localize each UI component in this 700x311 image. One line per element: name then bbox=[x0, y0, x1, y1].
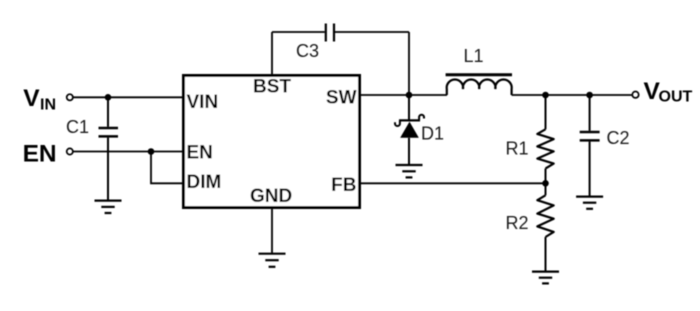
resistor R1 bbox=[537, 95, 553, 183]
wire VIN rail bbox=[73, 96, 182, 98]
ground GND pin bbox=[259, 254, 286, 267]
wire L1 to VOUT bbox=[512, 94, 633, 96]
wire GND stub bbox=[271, 208, 273, 253]
svg-text:C1: C1 bbox=[66, 117, 89, 137]
label VIN bbox=[23, 85, 56, 114]
node SW junction bbox=[406, 92, 413, 99]
wire DIM link bbox=[151, 152, 182, 184]
svg-text:SW: SW bbox=[326, 88, 357, 109]
svg-text:R1: R1 bbox=[506, 139, 529, 159]
node VOUT-C2 junction bbox=[586, 92, 593, 99]
node VOUT-R1 junction bbox=[542, 92, 549, 99]
svg-text:C2: C2 bbox=[607, 128, 630, 148]
svg-text:C3: C3 bbox=[296, 41, 319, 61]
capacitor C1 bbox=[99, 97, 119, 199]
node FB junction bbox=[542, 180, 549, 187]
svg-text:VIN: VIN bbox=[187, 92, 219, 113]
ground C2 bbox=[576, 197, 603, 209]
svg-text:R2: R2 bbox=[506, 213, 529, 233]
svg-text:DIM: DIM bbox=[187, 172, 222, 193]
wire BST-SW vertical bbox=[408, 32, 410, 95]
ground D1 bbox=[396, 165, 423, 177]
wire SW bbox=[361, 94, 409, 96]
resistor R2 bbox=[537, 183, 553, 271]
node EN-DIM junction bbox=[148, 148, 155, 155]
label VOUT bbox=[644, 78, 693, 106]
svg-text:FB: FB bbox=[331, 175, 356, 196]
capacitor C2 bbox=[580, 95, 600, 196]
ground C1 bbox=[95, 201, 122, 213]
inductor L1 bbox=[446, 75, 512, 95]
diode D1 (schottky) bbox=[395, 95, 424, 165]
terminal VIN bbox=[67, 94, 73, 100]
svg-text:IN: IN bbox=[40, 97, 56, 114]
svg-text:OUT: OUT bbox=[659, 89, 693, 106]
wire SW to L1 bbox=[409, 94, 447, 96]
svg-text:BST: BST bbox=[253, 76, 291, 97]
svg-text:EN: EN bbox=[187, 142, 213, 163]
wire FB bbox=[361, 182, 546, 184]
op-amp U1 (IC box) bbox=[184, 76, 360, 208]
node VIN-C1 junction bbox=[105, 94, 112, 101]
terminal EN bbox=[67, 148, 73, 154]
svg-text:EN: EN bbox=[23, 141, 57, 168]
wire EN rail bbox=[73, 151, 182, 153]
svg-text:V: V bbox=[23, 85, 40, 112]
wire BST stub bbox=[271, 32, 273, 75]
svg-text:L1: L1 bbox=[464, 46, 484, 66]
svg-text:D1: D1 bbox=[421, 124, 444, 144]
terminal VOUT bbox=[632, 92, 638, 98]
capacitor C3 bbox=[272, 24, 409, 42]
ground R2 bbox=[532, 272, 559, 284]
svg-text:GND: GND bbox=[250, 186, 292, 207]
